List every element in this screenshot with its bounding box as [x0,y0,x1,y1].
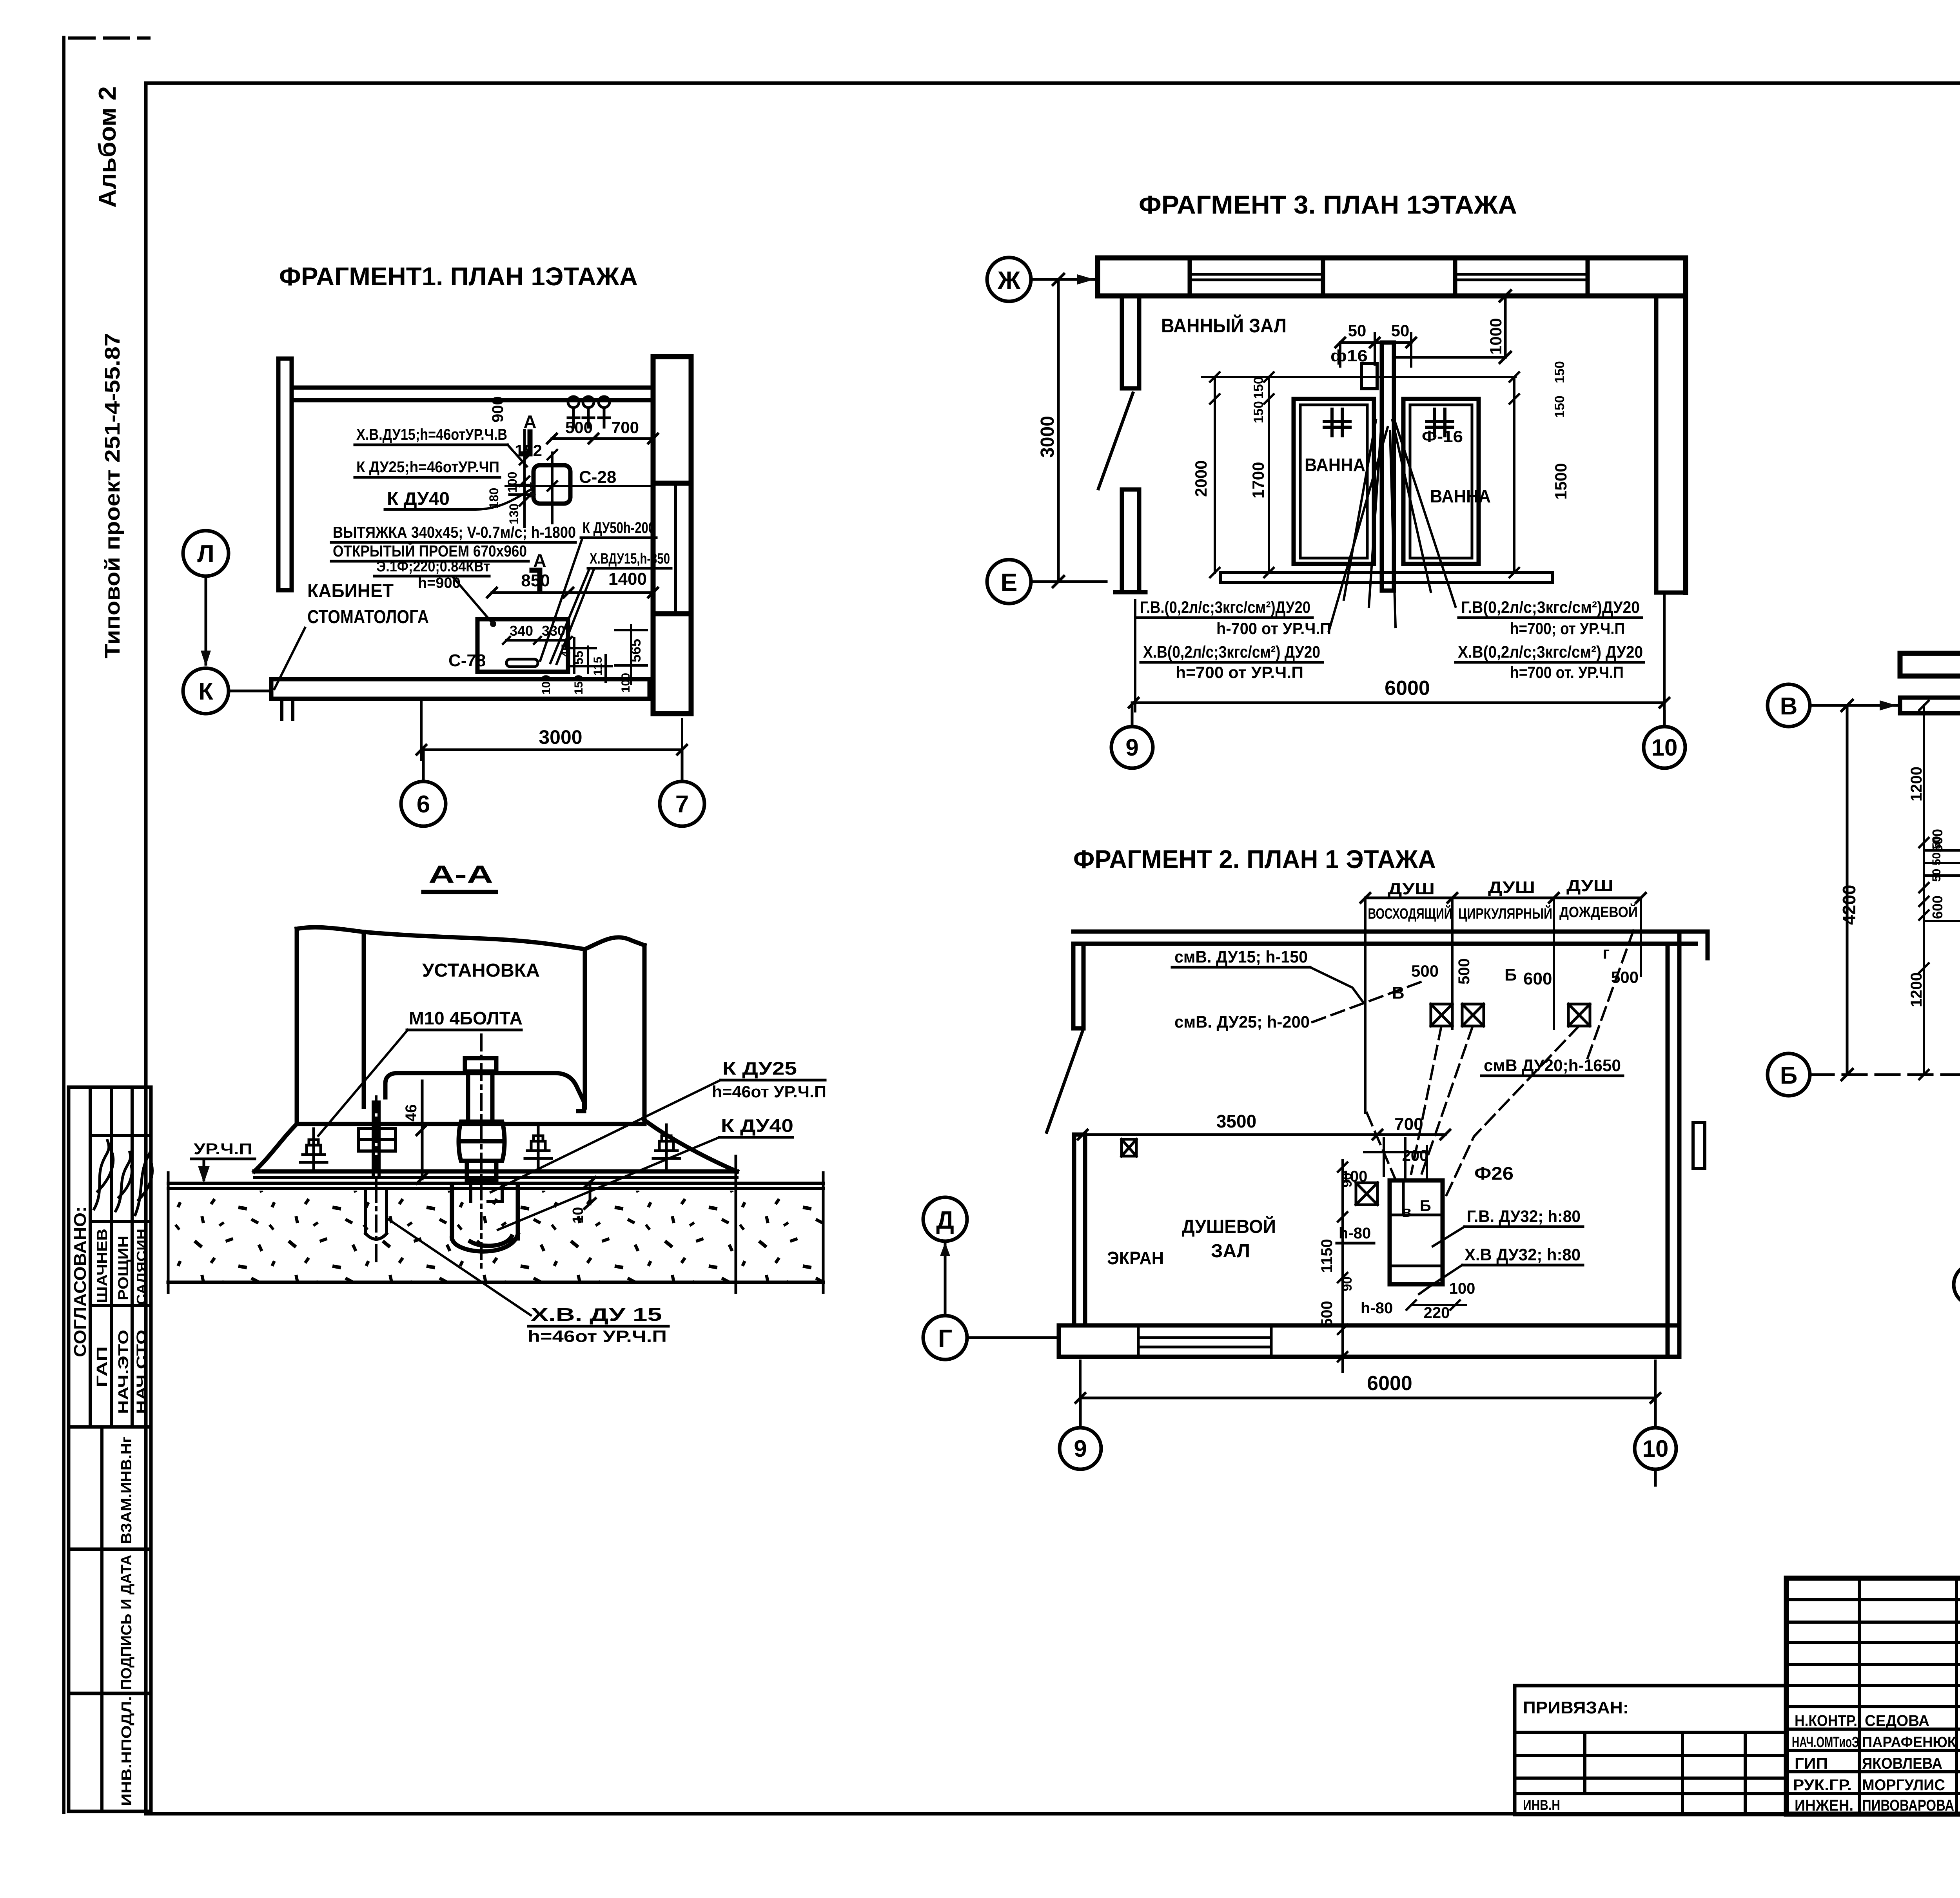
axis circle 6 [1954,1264,1960,1305]
axis circle K [183,668,229,714]
machine top cover [364,932,585,949]
svg-text:100: 100 [540,675,553,694]
svg-text:700: 700 [1394,1115,1423,1134]
bottom ledge [1221,573,1552,582]
row line titles top [90,1304,151,1307]
dim vertical right [1510,372,1519,577]
anchor bolt nut [358,1128,396,1151]
svg-text:РУК.ГР.: РУК.ГР. [1793,1777,1852,1794]
svg-text:3000: 3000 [539,726,582,748]
concrete bottom line [168,1281,823,1284]
svg-text:ДУШ: ДУШ [1488,878,1535,896]
leader XV DU32 [1419,1265,1462,1294]
svg-text:1150: 1150 [1318,1239,1336,1273]
svg-text:100: 100 [505,472,519,493]
pipe upper [468,1071,492,1120]
svg-text:Г: Г [938,1324,952,1352]
skirt top edge [297,1122,644,1126]
small dim verticals right of C78 [574,625,631,684]
signature 3 [135,1143,152,1215]
top wall outline [1098,258,1686,296]
axis G line [967,1336,1059,1339]
svg-text:3500: 3500 [1216,1111,1256,1131]
svg-text:h-700 от УР.Ч.П: h-700 от УР.Ч.П [1216,619,1331,638]
col line 3 [131,1087,134,1427]
wall divider 4 [1586,258,1590,296]
floor line a [168,1182,823,1185]
svg-text:НАЧ.ЭТО: НАЧ.ЭТО [115,1330,131,1414]
dashed leaders to fixture [1411,1026,1441,1174]
svg-text:Х.В(0,2л/с;3кгс/см²) ДУ20: Х.В(0,2л/с;3кгс/см²) ДУ20 [1458,643,1643,662]
base plate top [254,1169,737,1174]
svg-text:Х.В ДУ32; h:80: Х.В ДУ32; h:80 [1465,1245,1581,1264]
svg-text:Х.В.ДУ15;h=46отУР.Ч.В: Х.В.ДУ15;h=46отУР.Ч.В [356,426,507,443]
svg-text:РОЩИН: РОЩИН [115,1236,131,1300]
skirt left flare [254,1124,297,1171]
svg-text:ШАЧНЕВ: ШАЧНЕВ [94,1229,110,1303]
top wall band [1900,653,1960,676]
svg-text:ФРАГМЕНТ 3. ПЛАН 1ЭТАЖА: ФРАГМЕНТ 3. ПЛАН 1ЭТАЖА [1139,190,1517,219]
bottom window lines [1138,1325,1271,1357]
leader t1 [508,445,527,466]
svg-text:УР.Ч.П: УР.Ч.П [194,1140,252,1158]
svg-text:h=700 от. УР.Ч.П: h=700 от. УР.Ч.П [1510,663,1624,682]
svg-text:К ДУ25: К ДУ25 [722,1058,797,1079]
svg-text:СТОМАТОЛОГА: СТОМАТОЛОГА [307,607,429,627]
svg-text:ОТКРЫТЫЙ ПРОЕМ 670х960: ОТКРЫТЫЙ ПРОЕМ 670х960 [333,542,527,560]
svg-text:СЕДОВА: СЕДОВА [1865,1712,1929,1729]
bolt 3 surface [653,1125,680,1170]
axis circle 9 [1111,727,1153,768]
anchor sleeve below floor [366,1188,387,1234]
svg-text:УСТАНОВКА: УСТАНОВКА [422,960,540,981]
right column upper [653,357,691,483]
thin lines into cabinet [1924,850,1960,921]
svg-text:ФРАГМЕНТ 2. ПЛАН 1 ЭТАЖА: ФРАГМЕНТ 2. ПЛАН 1 ЭТАЖА [1073,845,1436,874]
svg-text:130: 130 [507,504,521,524]
stub column below wall [282,699,293,720]
pipe lower [467,1161,496,1180]
faucet 2 [583,408,594,427]
svg-text:ПИВОВАРОВА: ПИВОВАРОВА [1862,1797,1954,1814]
svg-text:ФРАГМЕНТ1. ПЛАН 1ЭТАЖА: ФРАГМЕНТ1. ПЛАН 1ЭТАЖА [279,262,638,291]
frag1 sink construction lines [506,450,653,523]
upper rows left part [1786,1600,1960,1707]
axis B dashed line [1810,1073,1960,1076]
svg-text:Ф26: Ф26 [1474,1163,1514,1184]
svg-text:45: 45 [559,644,573,658]
svg-text:h=46от УР.Ч.П: h=46от УР.Ч.П [528,1327,667,1345]
leader K DU25 [491,1080,720,1192]
svg-text:в: в [1402,1203,1412,1220]
shower square 1 [1431,1004,1452,1026]
right mid block [1693,1122,1705,1168]
signature 2 [116,1152,132,1211]
svg-text:Х.В. ДУ 15: Х.В. ДУ 15 [531,1304,662,1325]
FRAGMENT 3 [987,190,1686,768]
podpis box [69,1549,151,1693]
svg-text:К ДУ50h-200: К ДУ50h-200 [583,519,655,537]
fixture inner lines [1390,1180,1443,1266]
svg-text:ДОЖДЕВОЙ: ДОЖДЕВОЙ [1559,903,1638,921]
svg-text:С-28: С-28 [579,468,616,487]
extension lines 6000 [1080,1361,1655,1407]
svg-text:К ДУ40: К ДУ40 [387,488,450,509]
svg-text:ДУШЕВОЙ: ДУШЕВОЙ [1182,1216,1276,1237]
TITLE BLOCK [1515,1578,1960,1849]
svg-text:ЯКОВЛЕВА: ЯКОВЛЕВА [1862,1755,1942,1772]
svg-text:Н.КОНТР.: Н.КОНТР. [1795,1712,1857,1729]
leader SMV DU25 dashed [1312,980,1427,1022]
left bathtub outer [1294,399,1374,564]
concrete fill [168,1191,823,1281]
axis E line [1031,580,1106,583]
extension lines 50 [1340,333,1411,366]
svg-text:А: А [523,412,536,432]
left wall lower cap [1115,590,1145,595]
window sill seg4 [1455,274,1588,280]
svg-text:1500: 1500 [1552,463,1570,500]
svg-text:г: г [1602,943,1610,963]
name rows left part [1786,1729,1960,1793]
title underline [423,890,496,894]
svg-text:ИНВ.НПОДЛ.: ИНВ.НПОДЛ. [118,1696,134,1806]
machine top break wave [585,937,644,949]
section cut tick [735,1156,737,1293]
extension right 6000 [1663,593,1666,711]
stamp col 1 [1858,1578,1861,1814]
svg-text:ВАННЫЙ ЗАЛ: ВАННЫЙ ЗАЛ [1161,314,1287,337]
svg-text:10: 10 [570,1207,586,1224]
podpis divider [100,1549,103,1693]
arrows into sink [510,485,530,495]
row line names top [90,1220,151,1223]
extension lines 3000 [421,702,682,760]
svg-text:САЛЯСИН: САЛЯСИН [134,1229,149,1305]
axis D-G line with arrow [944,1241,947,1316]
svg-text:НАЧ.СТО: НАЧ.СТО [134,1330,149,1414]
vzam inv box [69,1427,151,1549]
axis Zh line [1031,278,1098,281]
F16 box [1361,364,1377,389]
pipe cap top [465,1058,496,1071]
axis circle 10 [1644,727,1685,768]
svg-text:ПАРАФЕНЮК: ПАРАФЕНЮК [1862,1734,1956,1751]
UR arrow [203,1159,205,1180]
bolt 2 surface [525,1125,552,1170]
leader K DU50 [540,538,583,661]
svg-text:500: 500 [565,418,593,437]
svg-text:ДУШ: ДУШ [1566,876,1613,895]
right wall bottom cap [1656,591,1686,595]
privyazan table outline [1515,1686,1786,1815]
svg-text:Х.В(0,2л/с;3кгс/см²) ДУ20: Х.В(0,2л/с;3кгс/см²) ДУ20 [1143,643,1320,662]
svg-text:смВ. ДУ25; h-200: смВ. ДУ25; h-200 [1174,1013,1310,1031]
leader SMV DU20 dashed [1588,925,1635,1058]
shower square small left [1122,1139,1136,1156]
leader from E1F to C-78 [453,577,493,624]
svg-text:10: 10 [1651,734,1678,761]
col line 2 [110,1087,113,1427]
svg-text:Б: Б [1420,1197,1431,1215]
bolt 1 surface [300,1129,327,1171]
dim 1000 [1500,290,1511,363]
svg-text:7: 7 [675,791,689,818]
svg-text:Б: Б [1780,1062,1798,1089]
sheet left edge line [62,37,65,1813]
svg-text:2000: 2000 [1192,460,1210,497]
left wall top band [1900,698,1960,713]
wall divider 1 [1188,258,1192,296]
line to circle 6 [422,750,425,781]
sleeve inner notch [471,1185,502,1202]
leader K DU40 [475,489,532,509]
svg-text:6000: 6000 [1385,677,1430,700]
horizontal line through sink to wall [506,485,653,487]
axis circle 7 [660,781,704,826]
central partition [1382,343,1394,591]
dim vertical left b [1264,372,1274,577]
shower square mid [1356,1183,1377,1205]
dim vertical 4200 [1842,700,1853,1080]
concrete right tick [822,1173,825,1293]
svg-text:ВОСХОДЯЩИЙ: ВОСХОДЯЩИЙ [1368,905,1452,922]
svg-text:500: 500 [1318,1301,1336,1327]
axis circle 10 [1635,1428,1676,1469]
svg-text:1200: 1200 [1908,767,1925,801]
LEFT STAMP STRIP [69,1087,152,1811]
axis circle G [923,1316,967,1360]
left wall lower [1122,489,1139,592]
col line 1 [89,1087,92,1427]
svg-text:МОРГУЛИС: МОРГУЛИС [1862,1777,1945,1794]
left wall upper [1073,944,1083,1028]
svg-text:ЦИРКУЛЯРНЫЙ: ЦИРКУЛЯРНЫЙ [1458,905,1552,922]
leader kabinet [274,628,305,689]
leader K DU40 [498,1137,719,1230]
leader mid [1329,427,1396,631]
extension lines from shower dims [1365,898,1641,1113]
leader XB DU15 [550,568,594,664]
dim 6000 [1076,1393,1660,1403]
machine cover bottom arc [385,1073,584,1111]
axis circle B [1768,1053,1810,1096]
svg-text:9: 9 [1125,734,1138,761]
dim 50 50 [1336,338,1416,347]
stamp col 2 [1955,1578,1958,1814]
right bathtub inner [1410,405,1472,558]
svg-text:ДУШ: ДУШ [1388,879,1435,898]
anchor sleeve bottom curve [366,1234,387,1239]
svg-text:3000: 3000 [1037,416,1058,458]
svg-text:330: 330 [542,623,565,639]
svg-text:500: 500 [1611,968,1639,986]
faucet right [1427,409,1453,436]
axis circle 6 [401,781,446,826]
frag2 extra letters [1402,1197,1431,1220]
left wall upper stub [1122,296,1139,388]
dim vertical left a [1210,372,1220,577]
SECTION A-A [168,860,826,1345]
axis circle L [183,531,229,576]
svg-text:СОГЛАСОВАНО:: СОГЛАСОВАНО: [71,1206,90,1357]
svg-text:9: 9 [1074,1436,1087,1462]
axis circle E [987,560,1031,604]
bottom wall left cap [1057,1325,1061,1357]
svg-text:В: В [1780,693,1798,720]
axis circle V [1768,684,1810,727]
svg-text:НАЧ.ОМТиоЭ: НАЧ.ОМТиоЭ [1792,1734,1859,1751]
concrete left tick [167,1173,170,1293]
svg-text:ф16: ф16 [1330,346,1368,365]
svg-text:150: 150 [1552,361,1567,383]
axis circle 9 [1060,1428,1101,1469]
axis line L-K with arrow [205,577,207,664]
right column middle [653,483,691,614]
svg-text:К: К [198,678,213,705]
svg-text:600: 600 [1929,896,1945,919]
dim line 850 1400 [492,591,653,594]
svg-text:ГАП: ГАП [94,1346,111,1387]
svg-text:К ДУ25;h=46отУР.ЧП: К ДУ25;h=46отУР.ЧП [356,459,499,476]
svg-text:10: 10 [1642,1436,1669,1462]
svg-text:50: 50 [1348,321,1367,340]
right wall outer [1683,296,1688,593]
svg-text:Ф-16: Ф-16 [1422,427,1463,446]
vertical dim line left of sink [520,430,529,527]
svg-text:смВ. ДУ15; h-150: смВ. ДУ15; h-150 [1174,948,1308,966]
machine right edge [642,945,647,1120]
machine left plate right edge [362,932,366,1107]
signature 1 [94,1140,113,1209]
leader SMV DU15 [1310,967,1363,1002]
FRAGMENT 1 [183,262,704,826]
svg-text:h=700; от УР.Ч.П: h=700; от УР.Ч.П [1510,619,1625,638]
datum line top [1202,376,1515,378]
privyazan col lines [1585,1732,1745,1815]
floor line b [168,1187,823,1190]
svg-text:50: 50 [1391,321,1410,340]
faucet left [1324,409,1350,436]
sink C-28 [534,465,570,504]
svg-text:ИНВ.Н: ИНВ.Н [1523,1797,1560,1813]
privyazan row line 4 [1515,1792,1786,1795]
pipe elbow [452,1235,518,1251]
pipe union nut [459,1122,505,1161]
svg-text:150: 150 [1552,395,1567,418]
svg-text:Б: Б [1504,965,1517,984]
extension left 6000 [1134,600,1136,711]
pipe sleeve below floor [452,1185,518,1238]
FRAGMENT 2 [923,845,1708,1485]
line to circle 7 [681,750,684,781]
svg-text:ВАННА: ВАННА [1305,455,1365,475]
top wall line a [1073,930,1679,934]
svg-text:1700: 1700 [1249,462,1267,499]
svg-text:150: 150 [572,675,585,694]
axis circle D [923,1197,967,1241]
svg-text:Д: Д [936,1206,954,1234]
svg-text:500: 500 [1455,958,1473,984]
bottom wall right cap [648,679,652,699]
svg-text:h-80: h-80 [1361,1300,1393,1317]
axis circle Zh [987,257,1031,301]
right wall inner [1666,944,1670,1357]
dim vertical segments [1919,701,1929,1079]
svg-text:Г.В. ДУ32; h:80: Г.В. ДУ32; h:80 [1467,1207,1581,1226]
svg-text:Г.В(0,2л/с;3кгс/см²)ДУ20: Г.В(0,2л/с;3кгс/см²)ДУ20 [1461,598,1640,617]
dim 10 line [584,1177,595,1209]
svg-text:Альбом 2: Альбом 2 [94,86,121,208]
dim 46 line [417,1081,428,1184]
vertical line through sink [551,453,554,523]
top right corner piece [1679,932,1708,958]
top wall line a [292,386,653,390]
base plate bottom [254,1176,737,1179]
svg-text:ГИП: ГИП [1795,1755,1828,1772]
right column inner line [674,485,677,614]
FRAGMENT 4 [1768,596,1960,1305]
bottom wall line a [1059,1323,1679,1328]
svg-text:1000: 1000 [1486,318,1505,355]
right wall outer [1677,932,1682,1357]
left bathtub inner [1300,405,1367,558]
dim 6000 [1129,698,1669,707]
svg-text:46: 46 [403,1104,420,1122]
C-78 slot [506,659,538,667]
svg-text:ИНЖЕН.: ИНЖЕН. [1795,1797,1853,1814]
svg-text:С-78: С-78 [448,651,486,670]
small dim cluster near fixture [1364,1138,1427,1180]
faucet 1 [568,408,579,427]
privyazan row line 2 [1515,1754,1786,1757]
svg-text:смВ ДУ20;h-1650: смВ ДУ20;h-1650 [1484,1056,1621,1075]
anchor center line [375,1097,377,1267]
pipe center line [480,1035,483,1270]
svg-text:М10 4БОЛТА: М10 4БОЛТА [409,1008,523,1028]
top-left dashed sheet edge [70,36,149,40]
svg-text:ВАННА: ВАННА [1430,486,1491,506]
leader XB DU15 [387,1218,531,1315]
svg-text:340: 340 [510,623,533,639]
privyazan row line 3 [1515,1777,1786,1780]
svg-text:А-А: А-А [428,860,493,888]
wall divider 3 [1453,258,1457,296]
axis V line [1810,704,1900,707]
tick marks on sink lines [548,450,557,491]
stamp outline [1786,1578,1960,1814]
svg-text:4200: 4200 [1839,885,1859,925]
svg-text:h=700 от УР.Ч.П: h=700 от УР.Ч.П [1176,663,1303,682]
svg-text:150: 150 [1251,377,1266,399]
small dim horizontals [570,630,647,666]
leader M10 [318,1030,408,1136]
svg-text:6: 6 [417,791,430,818]
svg-text:220: 220 [1424,1304,1450,1322]
leader GV DU32 [1433,1227,1465,1246]
svg-text:600: 600 [1523,969,1552,988]
soglasovano block box [69,1087,151,1427]
svg-text:1200: 1200 [1908,972,1925,1007]
vzam divider [100,1427,103,1549]
dim 3500 [1078,1130,1382,1139]
svg-text:Х.ВДУ15,h-350: Х.ВДУ15,h-350 [590,551,670,567]
dim line 3000 [421,749,682,751]
anchor bolt rod [373,1102,379,1177]
left column wall [278,359,292,590]
svg-text:ЗАЛ: ЗАЛ [1211,1241,1250,1262]
svg-text:900: 900 [489,396,506,422]
